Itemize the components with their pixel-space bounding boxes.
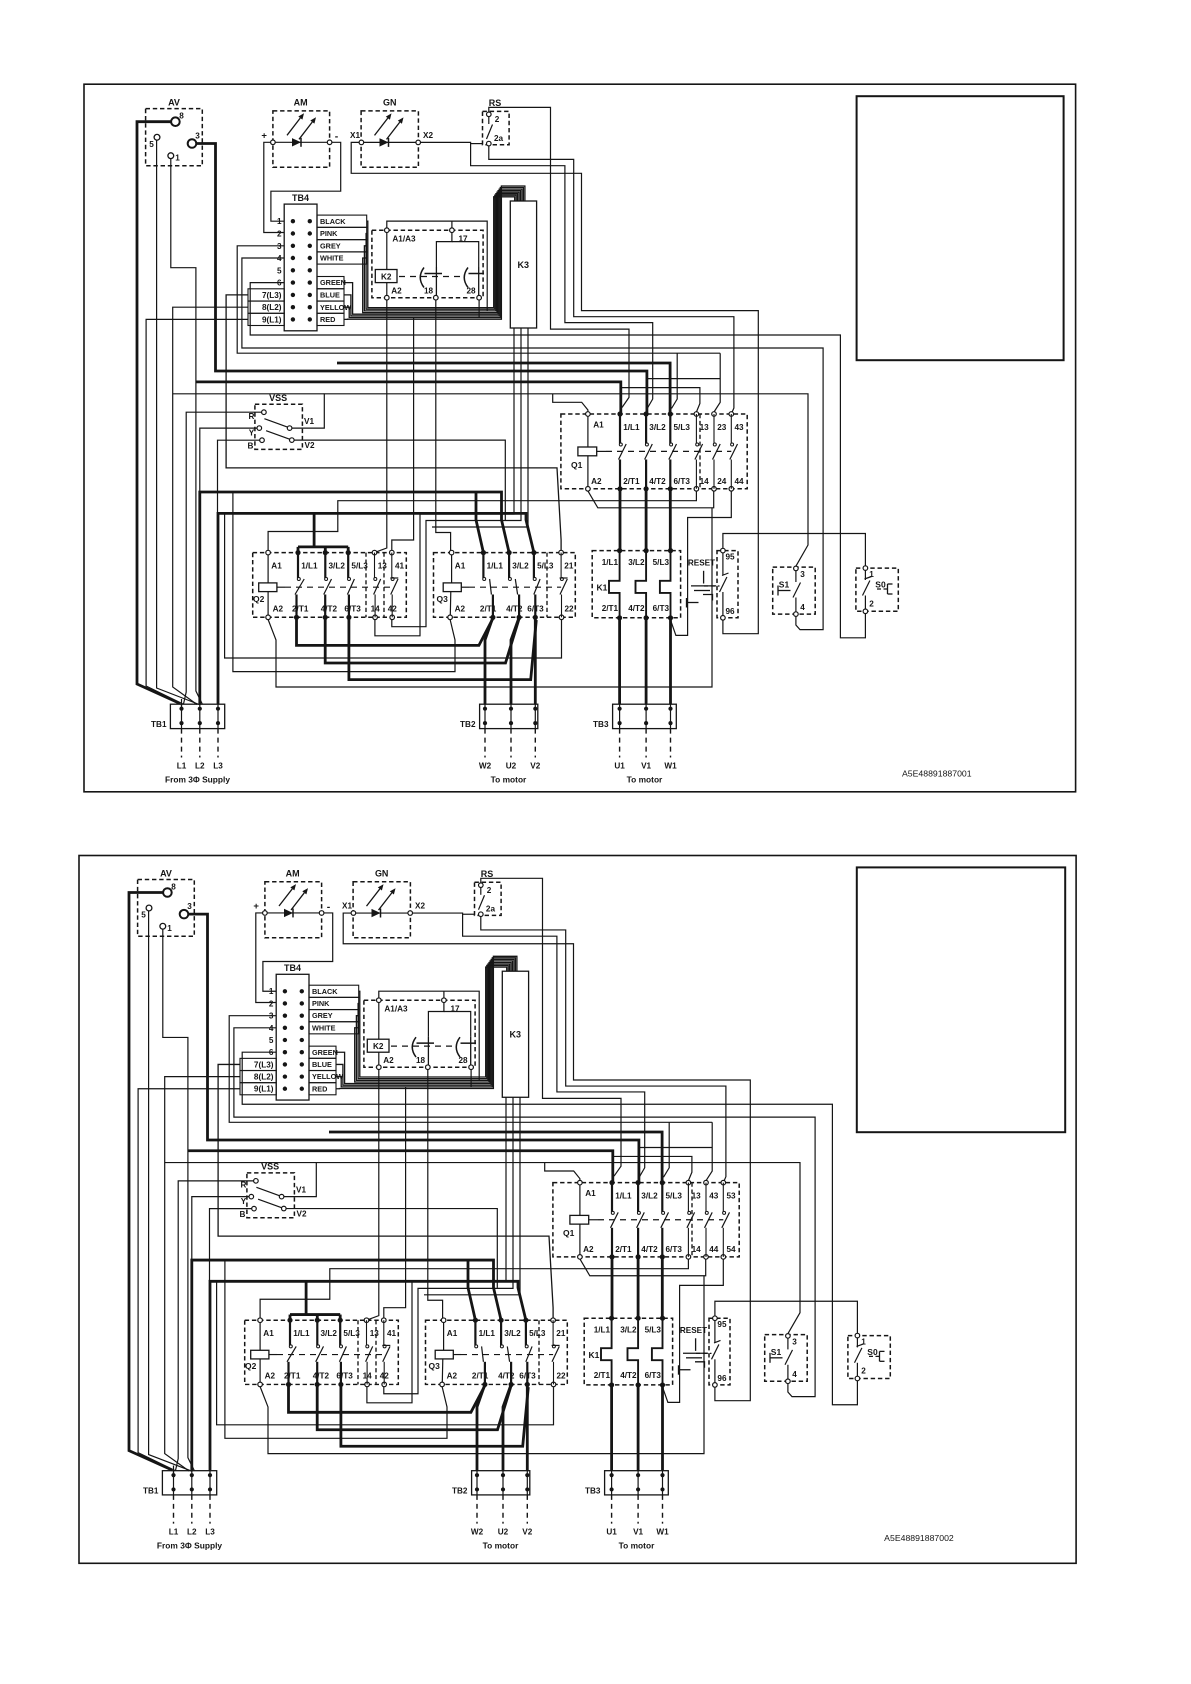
Q2 terminal 1/L1 (top) (295, 550, 300, 555)
svg-text:PINK: PINK (312, 999, 330, 1008)
wire Q2 4/T2 cross to Q3 (bold) (325, 617, 519, 663)
Q1 terminal 6/T3 (bottom) (668, 486, 673, 491)
svg-text:18: 18 (424, 287, 434, 296)
contactor Q3 (dashed box) (434, 553, 576, 618)
GN wire through (361, 141, 418, 143)
svg-text:18: 18 (416, 1056, 426, 1065)
svg-text:GREY: GREY (312, 1011, 333, 1020)
svg-text:L1: L1 (169, 1528, 179, 1537)
wire TB4 PINK to K3 (bundle) (358, 965, 508, 1078)
S0 terminal 2 (855, 1376, 860, 1381)
contactor Q2 (dashed box) (253, 553, 407, 618)
sheet 2 border frame (79, 856, 1076, 1564)
svg-text:TB1: TB1 (151, 720, 167, 729)
K2 contact 17-18 (timed) (412, 1037, 416, 1057)
svg-text:To motor: To motor (491, 775, 527, 785)
Q3 terminal 3/L2 (top) (499, 1318, 504, 1323)
sheet 1 border frame (84, 84, 1076, 792)
svg-text:A1: A1 (447, 1329, 458, 1338)
wire Q3 A2 chain (233, 492, 455, 672)
TB1 terminal L3 (208, 1473, 212, 1477)
wire V1 chain to S1-3 (292, 394, 808, 566)
wire TB4 WHITE to K3 (bundle) (355, 962, 511, 1082)
wire K1 to TB3 (bold) (610, 1385, 613, 1471)
svg-text:BLUE: BLUE (320, 291, 340, 300)
wire Q2 6/T3 cross to Q3 (bold) (341, 1384, 528, 1446)
wire Q3 22 chain (217, 1281, 554, 1425)
Q3 pole contact (533, 553, 535, 578)
svg-text:6/T3: 6/T3 (336, 1372, 353, 1381)
wire Q1 4/T2 to K1 (bold) (645, 489, 648, 551)
Q2 terminal 13 (top) (372, 550, 377, 555)
wire AM- to TB4 row1 (271, 142, 341, 221)
wire Q1 5/L3 thin riser (672, 353, 678, 408)
Q3 terminal 3/L2 (top) (507, 550, 512, 555)
Q2 terminal A2 (bottom) (266, 615, 271, 620)
AM terminal + (271, 140, 276, 145)
wire Q2 2/T1 cross to Q3 (bold) (289, 1384, 485, 1412)
TB4 wire label RED (317, 313, 344, 325)
svg-text:4/T2: 4/T2 (506, 605, 523, 614)
wire Q1 6/T3 to K1 (bold) (661, 1257, 664, 1318)
VSS terminal R (254, 1179, 259, 1184)
wire feed Q1 13 (613, 1156, 692, 1180)
Q1 pole contact (705, 1183, 707, 1212)
wire Q3 1/L1 feed branch (bold) (468, 1260, 475, 1320)
TB4 pin row 5 (291, 268, 295, 272)
wire Q2 bus feed (bold) (305, 1281, 308, 1314)
TB2 stub W2 (484, 729, 486, 758)
svg-text:To motor: To motor (627, 775, 663, 785)
svg-text:1/L1: 1/L1 (479, 1329, 496, 1338)
Q3 terminal 5/L3 (top) (531, 550, 536, 555)
svg-text:6/T3: 6/T3 (674, 477, 691, 486)
TB3 terminal W1 (660, 1473, 664, 1477)
svg-text:41: 41 (395, 562, 405, 571)
relay K2 outer solid frame (379, 991, 479, 1080)
Q1 terminal A2 (bottom) (578, 1255, 583, 1260)
K1 terminal 3/L2 (top) (636, 1316, 641, 1321)
Q3 terminal 21 (top) (551, 1318, 556, 1323)
Q2 pole contact (289, 1320, 291, 1345)
svg-text:53: 53 (726, 1192, 736, 1201)
svg-text:2: 2 (487, 886, 492, 895)
wire VSS R to supply (176, 1181, 254, 1471)
wire bold feed Q1 1/L1 (196, 382, 620, 414)
TB4 pin row 9(L1) (291, 317, 295, 321)
svg-text:44: 44 (709, 1245, 719, 1254)
svg-text:2/T1: 2/T1 (594, 1371, 611, 1380)
relay K2 (dashed box A1/A3) (372, 230, 483, 298)
AM terminal + (263, 911, 268, 916)
svg-text:44: 44 (735, 477, 745, 486)
svg-text:3/L2: 3/L2 (620, 1326, 637, 1335)
svg-text:A2: A2 (455, 605, 466, 614)
wire GN X2 chain to Q1 3/L2 riser (420, 142, 652, 408)
wire Q2 A2 loop to Q1 A2 (260, 1276, 704, 1454)
K2 contact 27-28 (timed) (464, 268, 468, 288)
Q3 coil (435, 1350, 453, 1359)
K2 internal wiring (378, 1002, 380, 1039)
wire TB1 L3 up to Q3 5/L3 (bold) (210, 1281, 526, 1470)
svg-text:L1: L1 (177, 762, 187, 771)
svg-text:A2: A2 (447, 1372, 458, 1381)
Q2 pole contact (383, 1320, 385, 1345)
wire 28 down (470, 1069, 472, 1087)
RESET linkage dashes (696, 1352, 712, 1354)
svg-text:R: R (241, 1181, 247, 1190)
Q1 terminal A1 (top) (586, 412, 591, 417)
Q3 aux separator (546, 553, 548, 618)
svg-text:41: 41 (387, 1329, 397, 1338)
wire V2 right (294, 440, 505, 520)
wire AM+ to TB4 row2 (264, 142, 284, 232)
contactor Q3 (dashed box) (426, 1320, 568, 1384)
TB3 stub W1 (670, 729, 672, 758)
svg-text:GREEN: GREEN (320, 278, 346, 287)
wire Q3 6/T3 to TB2 (bold) (534, 617, 537, 704)
wire TB4 BLUE to K3 (bundle) (336, 959, 514, 1085)
svg-text:A1: A1 (585, 1189, 596, 1198)
svg-text:6/T3: 6/T3 (344, 605, 361, 614)
Q2 pole contact (297, 553, 299, 578)
wire TB1 L2 up to Q3 feeds (bold) (192, 1260, 501, 1471)
svg-text:21: 21 (564, 562, 574, 571)
TB4 pin row 4 (283, 1026, 287, 1030)
Q1 terminal 3/L2 (top) (644, 411, 649, 416)
svg-text:A5E48891887001: A5E48891887001 (902, 769, 972, 779)
svg-text:5/L3: 5/L3 (665, 1192, 682, 1201)
TB2 stub W2 (476, 1495, 478, 1524)
wire AV-1 down with jog (171, 159, 203, 705)
Q2 terminal 1/L1 (top) (287, 1318, 292, 1323)
Q3 terminal 1/L1 (top) (481, 550, 486, 555)
wire Q2 6/T3 cross to Q3 (bold) (349, 617, 536, 679)
svg-text:2: 2 (495, 115, 500, 124)
TB4 pin row 5 (283, 1038, 287, 1042)
svg-text:5: 5 (141, 911, 146, 920)
svg-text:4: 4 (800, 603, 805, 612)
TB4 wire label BLUE (309, 1058, 336, 1070)
Q3 pole contact (525, 1320, 527, 1345)
wire VSS B to supply column (218, 440, 260, 513)
Q2 aux separators (357, 1320, 359, 1384)
S0 actuator (869, 1355, 880, 1357)
svg-text:AV: AV (160, 868, 172, 878)
RS contact blade (488, 117, 490, 125)
wire Q3 4/T2 to TB2 (bold) (503, 1384, 511, 1470)
svg-text:3/L2: 3/L2 (321, 1329, 338, 1338)
svg-text:43: 43 (709, 1192, 719, 1201)
TB4 pin row 8(L2) (283, 1074, 287, 1078)
K1 terminal 2/T1 (bottom) (609, 1382, 614, 1387)
S1 actuator (769, 1353, 771, 1363)
svg-text:V2: V2 (530, 762, 540, 771)
terminal A1/A3 (377, 998, 382, 1003)
wire TB4 row7 chain to Q3 21 (218, 1064, 553, 1318)
svg-text:13: 13 (378, 562, 388, 571)
TB1 stub L3 (217, 729, 219, 758)
Q1 terminal 4/T2 (bottom) (644, 486, 649, 491)
svg-text:2/T1: 2/T1 (615, 1245, 632, 1254)
wire RS 2a to X2 segment (471, 143, 483, 145)
svg-text:1: 1 (269, 987, 274, 996)
svg-text:4/T2: 4/T2 (649, 477, 666, 486)
terminal 96 (721, 616, 726, 621)
AV pin 3 (188, 139, 197, 148)
svg-text:8(L2): 8(L2) (262, 303, 282, 312)
Q3 terminal A1 (top) (441, 1318, 446, 1323)
TB2 terminal W2 (475, 1473, 479, 1477)
svg-text:14: 14 (700, 477, 710, 486)
indicator GN (dashed box) (353, 882, 410, 938)
svg-text:5: 5 (269, 1036, 274, 1045)
wire RS-2 chain to Q1 1/L1 riser (481, 878, 621, 1176)
VSS terminal V2 (282, 1206, 287, 1211)
svg-text:A1/A3: A1/A3 (392, 235, 416, 244)
Q2 terminal 41 (top) (382, 1318, 387, 1323)
Q2 terminal 5/L3 (top) (346, 550, 351, 555)
Q3 aux separator (538, 1320, 540, 1384)
svg-text:A1: A1 (263, 1329, 274, 1338)
svg-text:4/T2: 4/T2 (628, 604, 645, 613)
svg-text:W1: W1 (656, 1528, 669, 1537)
RS terminal 2a (479, 912, 484, 917)
TB1 stub L2 (191, 1495, 193, 1524)
indicator GN (dashed box) (361, 111, 418, 167)
Q3 mechanical linkage (461, 1354, 553, 1356)
svg-text:S1: S1 (779, 580, 790, 590)
svg-text:4/T2: 4/T2 (321, 605, 338, 614)
terminal A2 of K2 (385, 295, 390, 300)
wire Q1 A2 to 24 loop (580, 1259, 706, 1276)
module K3 body (502, 971, 528, 1097)
svg-text:6/T3: 6/T3 (645, 1371, 662, 1380)
TB4 wire label WHITE (317, 252, 367, 264)
K2 coil (375, 270, 397, 283)
overload relay K1 (dashed box) (584, 1318, 672, 1385)
Q2 terminal 3/L2 (top) (323, 550, 328, 555)
wire TB4 GREY to K3 (bundle) (356, 964, 509, 1080)
AM LED emission arrows (279, 889, 292, 906)
S0 actuator (877, 588, 888, 590)
Q2 terminal 42 (bottom) (382, 1382, 387, 1387)
svg-text:9(L1): 9(L1) (262, 315, 282, 324)
svg-text:6/T3: 6/T3 (653, 604, 670, 613)
Q1 pole contact (619, 414, 621, 444)
Q2 aux separators (365, 553, 367, 618)
svg-text:13: 13 (700, 423, 710, 432)
Q1 terminal A2 (bottom) (586, 487, 591, 492)
svg-text:+: + (253, 901, 259, 912)
svg-text:L3: L3 (213, 762, 223, 771)
wire Q1 A1 feed from V1 line (553, 394, 588, 412)
svg-text:L2: L2 (187, 1528, 197, 1537)
Q2 pole contact (374, 553, 376, 578)
wire GN X1 chain to overload 96 loop (343, 913, 750, 1401)
svg-text:A1/A3: A1/A3 (384, 1004, 408, 1013)
wire Q3 22 chain (225, 513, 562, 658)
Q1 pole contact (611, 1183, 613, 1212)
wire Q2 bus (bold) (290, 1313, 340, 1316)
Q3 terminal A2 (bottom) (448, 615, 453, 620)
RESET linkage dashes (704, 585, 720, 587)
K3 bottom lead to Q2 42 (384, 1097, 513, 1393)
K1 heater element (660, 551, 671, 618)
Q3 pole contact (560, 553, 562, 578)
svg-text:B: B (240, 1210, 246, 1219)
Q1 terminal 14 (bottom) (694, 487, 699, 492)
svg-text:V1: V1 (296, 1186, 306, 1195)
GN LED emission arrows (375, 118, 388, 135)
Q3 terminal 6/T3 (bottom) (525, 1382, 530, 1387)
svg-text:X1: X1 (342, 902, 352, 911)
svg-text:BLACK: BLACK (320, 217, 346, 226)
wire TB4 row6 chain to S0 loop (242, 1052, 857, 1405)
Q2 terminal A1 (top) (258, 1318, 263, 1323)
svg-text:V2: V2 (304, 441, 314, 450)
RESET actuator (695, 1338, 697, 1351)
wire Q1 14 to Q2 A1 (260, 1259, 688, 1318)
svg-text:To motor: To motor (483, 1540, 519, 1550)
svg-text:A2: A2 (583, 1245, 594, 1254)
svg-text:A2: A2 (273, 605, 284, 614)
TB1 stub L2 (199, 729, 201, 758)
svg-text:21: 21 (556, 1329, 566, 1338)
AV pin 5 (154, 134, 160, 140)
wire AM- to TB4 row1 (263, 913, 333, 991)
wire feed Q1 13 (621, 388, 700, 412)
wire TB4 RED to K3 (bundle) (344, 186, 525, 319)
svg-text:A2: A2 (383, 1056, 394, 1065)
wire TB1 L2 up to Q3 feeds (bold) (200, 492, 509, 704)
svg-text:1/L1: 1/L1 (615, 1192, 632, 1201)
Q3 coil (443, 583, 461, 592)
wire TB4 row3 chain to Q1 23 (229, 1016, 712, 1123)
svg-text:13: 13 (692, 1192, 702, 1201)
svg-text:X2: X2 (423, 131, 433, 140)
Q2 terminal 3/L2 (top) (315, 1318, 320, 1323)
svg-text:Q2: Q2 (253, 594, 265, 604)
Q1 terminal 13 (top) (686, 1180, 691, 1185)
wire Q3 2/T1 to TB2 (bold) (485, 617, 493, 704)
wire TB4 row8 to supply fan (165, 1077, 240, 1471)
Q1 terminal 23 (top) (712, 412, 717, 417)
VSS terminal V1 (279, 1194, 284, 1199)
K1 heater element (636, 551, 647, 618)
svg-text:Q2: Q2 (245, 1361, 257, 1371)
Q1 pole contact (645, 414, 647, 444)
svg-text:K3: K3 (510, 1030, 522, 1040)
svg-text:24: 24 (717, 477, 727, 486)
TB3 stub U1 (611, 1495, 613, 1524)
terminal A2 of K2 (377, 1065, 382, 1070)
svg-text:AV: AV (168, 98, 180, 108)
svg-text:2: 2 (869, 600, 874, 609)
wire TB4 GREEN to K3 (bundle) (344, 191, 521, 315)
TB4 pin row 4 (291, 256, 295, 260)
TB1 terminal L3 (216, 707, 220, 711)
svg-text:U2: U2 (506, 762, 517, 771)
TB1 stub L1 (173, 1495, 175, 1524)
svg-text:K3: K3 (518, 260, 530, 270)
K1 terminal 1/L1 (top) (617, 548, 622, 553)
Q3 terminal 2/T1 (bottom) (490, 615, 495, 620)
svg-text:1/L1: 1/L1 (594, 1326, 611, 1335)
svg-text:V1: V1 (633, 1528, 643, 1537)
Q3 terminal 5/L3 (top) (523, 1318, 528, 1323)
svg-text:X1: X1 (350, 131, 360, 140)
svg-text:5: 5 (277, 266, 282, 275)
svg-text:L2: L2 (195, 762, 205, 771)
TB3 stub W1 (662, 1495, 664, 1524)
Q2 mechanical linkage (277, 1354, 384, 1356)
svg-text:W2: W2 (479, 762, 492, 771)
TB2 terminal V2 (525, 1473, 529, 1477)
wire K1 to TB3 (bold) (618, 618, 621, 704)
terminal block TB4 body (284, 204, 317, 331)
svg-text:5/L3: 5/L3 (351, 562, 368, 571)
95-96 NC blade (714, 1320, 716, 1342)
TB4 pin row 6 (291, 280, 295, 284)
Q1 pole contact (669, 414, 671, 444)
wire Q3 2/T1 to TB2 (bold) (477, 1384, 485, 1470)
Q1 coil (570, 1215, 589, 1224)
svg-text:VSS: VSS (269, 393, 287, 403)
svg-text:Q1: Q1 (571, 460, 583, 470)
GN terminal X2 (408, 911, 413, 916)
TB4 wire label GREY (317, 240, 367, 252)
Q2 terminal 42 (bottom) (390, 615, 395, 620)
terminal block TB1 (170, 704, 224, 728)
AM LED diode (292, 138, 301, 146)
TB2 terminal V2 (533, 707, 537, 711)
svg-text:2/T1: 2/T1 (284, 1372, 301, 1381)
svg-text:1/L1: 1/L1 (623, 423, 640, 432)
svg-text:28: 28 (458, 1056, 468, 1065)
Q1 pole contact (713, 414, 715, 444)
terminal 95 (721, 548, 726, 553)
svg-text:S1: S1 (771, 1347, 782, 1357)
wire AV-5 down (149, 911, 193, 1472)
Q2 terminal 5/L3 (top) (338, 1318, 343, 1323)
wire TB4 row9 to supply fan (138, 1089, 240, 1471)
svg-text:V1: V1 (304, 417, 314, 426)
wire TB4 row6 chain to S0 loop (250, 283, 865, 638)
AM LED diode (284, 909, 293, 917)
RS terminal 2 (487, 112, 492, 117)
VSS blade Y-V2 (266, 431, 290, 440)
svg-text:WHITE: WHITE (320, 254, 344, 263)
K3 bottom lead to Q2 14 (375, 328, 514, 636)
TB4 wire label GREEN (309, 1046, 336, 1058)
Q1 terminal 4/T2 (bottom) (636, 1254, 641, 1259)
svg-text:AM: AM (294, 98, 308, 108)
AM terminal - (319, 911, 324, 916)
wire TB4 YELLOW to K3 (bundle) (336, 958, 515, 1087)
Q2 terminal 4/T2 (bottom) (323, 615, 328, 620)
wire TB4 row7 chain to Q3 21 (226, 295, 561, 551)
TB1 terminal L2 (198, 707, 202, 711)
svg-text:3: 3 (792, 1337, 797, 1346)
K2 internal wiring (386, 232, 388, 269)
wire Q1 5/L3 thin riser (664, 1122, 670, 1177)
Q3 terminal A2 (bottom) (440, 1382, 445, 1387)
svg-text:95: 95 (717, 1320, 727, 1329)
wire Q1 A2 to 24 loop (588, 491, 714, 508)
Q3 mechanical linkage (469, 586, 561, 588)
TB4 pin row 1 (283, 989, 287, 993)
